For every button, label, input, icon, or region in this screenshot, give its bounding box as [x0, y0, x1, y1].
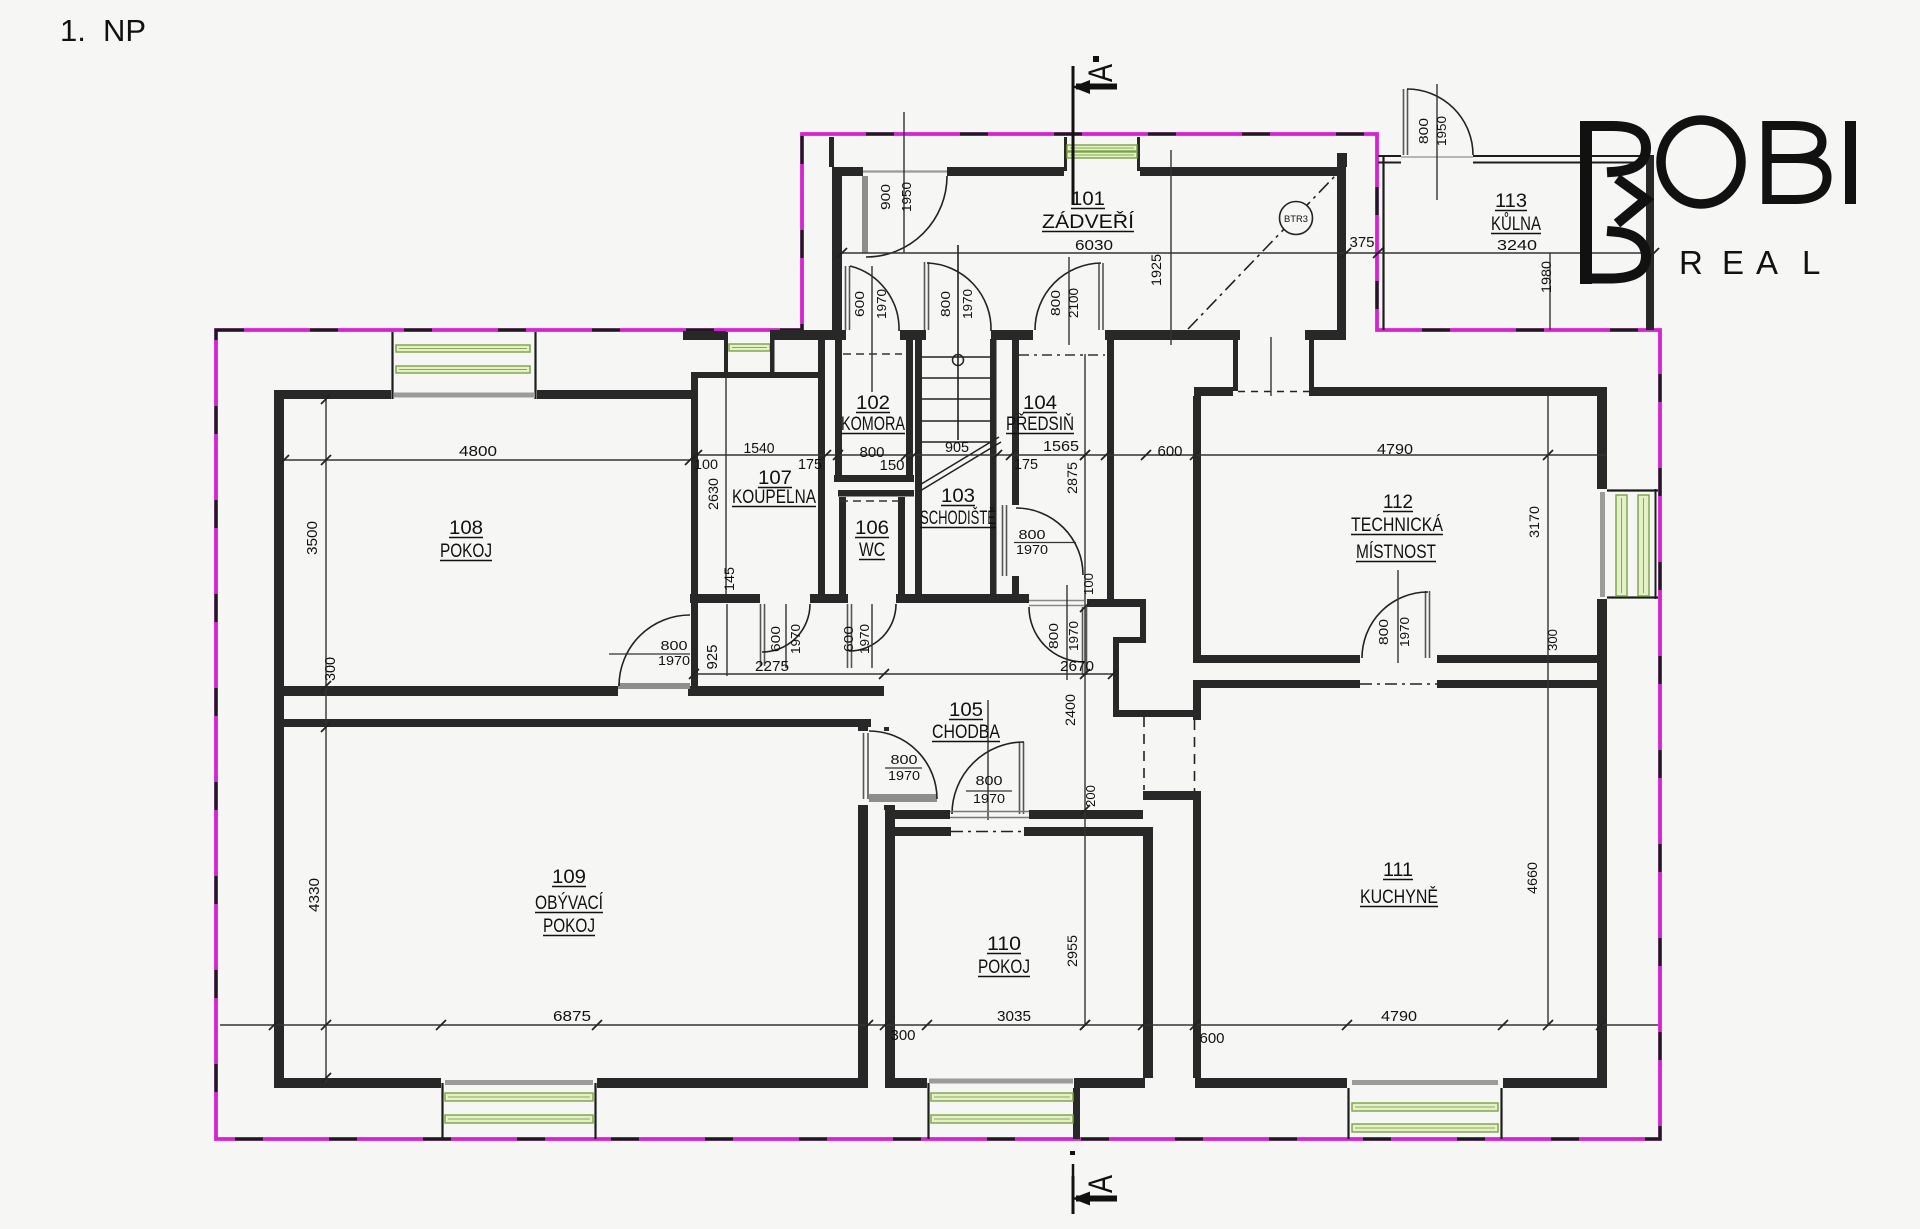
- vertical dim lines left inner: [725, 378, 727, 594]
- wall pokoj110 north e: [1024, 827, 1143, 836]
- svg-text:SCHODIŠTĚ: SCHODIŠTĚ: [920, 507, 996, 529]
- wall jog v1: [1140, 603, 1146, 643]
- wall predsin south e: [1087, 599, 1146, 607]
- vertical dim line x1085: [1084, 354, 1086, 1025]
- svg-text:600: 600: [841, 626, 856, 652]
- wall south-zadveri w4: [991, 330, 1033, 340]
- wall wc north: [838, 490, 914, 497]
- svg-text:KOMORA: KOMORA: [841, 414, 905, 435]
- bay pokoj108 window: [391, 332, 393, 399]
- wall komora south: [834, 475, 914, 482]
- svg-text:1.: 1.: [60, 13, 86, 48]
- wall pokoj110 east: [1143, 827, 1153, 1078]
- svg-text:CHODBA: CHODBA: [932, 722, 1000, 743]
- svg-text:1970: 1970: [1066, 621, 1081, 651]
- wall koupelna east: [818, 339, 825, 594]
- wall zadveri top west: [832, 167, 863, 176]
- dimension line zadveri/kulna y253: [842, 252, 1654, 254]
- svg-text:905: 905: [945, 439, 969, 456]
- svg-text:4330: 4330: [306, 878, 323, 912]
- wall south-zadveri w3: [900, 330, 926, 340]
- svg-text:800: 800: [938, 291, 953, 317]
- svg-text:POKOJ: POKOJ: [440, 541, 492, 562]
- wall stairs west: [915, 339, 922, 594]
- svg-text:108: 108: [449, 518, 483, 539]
- door 112 leaf: [1425, 591, 1427, 658]
- door komora leaf: [845, 266, 847, 330]
- window zadveri bar1: [1067, 145, 1137, 151]
- svg-text:800: 800: [1046, 623, 1061, 649]
- magenta property boundary: [216, 134, 1660, 1139]
- wall obyvaci east upper: [858, 727, 868, 731]
- wall jog kuchyne nw: [1143, 791, 1195, 800]
- svg-text:800: 800: [1019, 527, 1046, 542]
- svg-text:1540: 1540: [744, 440, 775, 457]
- svg-text:2630: 2630: [705, 478, 721, 510]
- staircase treads 103: [922, 356, 990, 358]
- wall chodba south e: [1029, 810, 1143, 819]
- window kuchyne bar2: [1352, 1124, 1498, 1132]
- svg-text:106: 106: [855, 518, 889, 539]
- svg-text:TECHNICKÁ: TECHNICKÁ: [1351, 515, 1443, 536]
- svg-text:109: 109: [552, 867, 586, 888]
- window koupelna post w: [724, 332, 728, 372]
- svg-text:150: 150: [880, 457, 905, 474]
- window 110 bar1: [931, 1093, 1073, 1101]
- wall house east lower: [1597, 599, 1607, 1088]
- svg-text:105: 105: [949, 700, 983, 721]
- wall south-zadveri w6: [1305, 330, 1346, 340]
- wall chodba south w: [885, 810, 950, 819]
- door 110 leaf: [1019, 742, 1021, 814]
- svg-text:3170: 3170: [1526, 506, 1542, 538]
- wall pokoj108 north w: [274, 390, 391, 399]
- staircase cut diagonal: [918, 437, 999, 486]
- svg-text:110: 110: [987, 934, 1021, 955]
- window kuchyne bar1: [1352, 1103, 1498, 1111]
- svg-text:2955: 2955: [1064, 935, 1080, 967]
- svg-text:300: 300: [1545, 629, 1560, 651]
- svg-text:1950: 1950: [1434, 116, 1449, 146]
- wall zadveri east: [1337, 167, 1346, 330]
- svg-text:1925: 1925: [1148, 254, 1164, 286]
- dash predsin top: [1019, 354, 1105, 356]
- wall zadveri west: [832, 167, 842, 330]
- wall south-zadveri w2: [770, 330, 846, 340]
- svg-text:112: 112: [1383, 492, 1413, 513]
- svg-text:L: L: [1802, 244, 1820, 281]
- dimension line bottom y1025: [220, 1024, 1658, 1026]
- dash-dot opening chodba-110: [951, 831, 1024, 833]
- wall house east upper: [1597, 396, 1607, 489]
- svg-text:600: 600: [852, 291, 867, 317]
- svg-text:600: 600: [1200, 1030, 1225, 1047]
- dash-dot opening tech-kuchyne: [1360, 683, 1437, 685]
- dimension line chodba y674: [694, 673, 1113, 675]
- svg-text:800: 800: [976, 773, 1003, 788]
- svg-text:3240: 3240: [1497, 237, 1537, 254]
- svg-text:KŮLNA: KŮLNA: [1491, 213, 1541, 235]
- svg-text:POKOJ: POKOJ: [543, 916, 595, 937]
- svg-text:600: 600: [1158, 443, 1183, 460]
- sill kulna door: [1401, 156, 1473, 158]
- bay 110 east edge: [1073, 1088, 1080, 1139]
- svg-text:1970: 1970: [888, 768, 920, 783]
- svg-text:2275: 2275: [755, 658, 789, 675]
- wall pokoj108 south w: [275, 686, 618, 696]
- svg-text:1980: 1980: [1538, 261, 1554, 293]
- door predsin w leaf: [1002, 505, 1004, 576]
- door 109 obyvaci 800/1970: [869, 794, 937, 802]
- wall corridor stub e: [1309, 337, 1314, 391]
- dimension line 4800 y460: [284, 459, 690, 461]
- svg-text:1970: 1970: [960, 289, 975, 319]
- svg-text:2875: 2875: [1064, 462, 1080, 494]
- wall wc east: [898, 497, 905, 594]
- svg-text:1565: 1565: [1043, 438, 1079, 455]
- svg-text:113: 113: [1495, 191, 1527, 212]
- svg-text:900: 900: [878, 184, 893, 210]
- bay technicka window: [1607, 489, 1658, 491]
- svg-text:100: 100: [694, 457, 718, 472]
- svg-text:4800: 4800: [459, 443, 497, 460]
- svg-text:3500: 3500: [304, 521, 321, 555]
- svg-text:2100: 2100: [1066, 288, 1081, 318]
- wall tech112 south w: [1195, 655, 1360, 663]
- svg-text:R: R: [1679, 244, 1703, 281]
- svg-text:1970: 1970: [1016, 542, 1048, 557]
- svg-text:PŘEDSIŇ: PŘEDSIŇ: [1006, 413, 1074, 435]
- svg-text:104: 104: [1023, 393, 1057, 414]
- svg-text:101: 101: [1071, 189, 1105, 210]
- vertical dim line x1171 zadveri 1925: [1170, 150, 1172, 345]
- svg-text:111: 111: [1383, 860, 1413, 881]
- wall kuchyne west upper: [1193, 680, 1201, 720]
- bay 110 window: [927, 1083, 929, 1139]
- wall chodba north w3: [896, 594, 1029, 603]
- wall south obyvaci e: [597, 1078, 868, 1088]
- wall kulna top west piece: [1378, 155, 1401, 157]
- door koupelna leaf: [760, 604, 762, 666]
- svg-text:4790: 4790: [1377, 441, 1413, 458]
- wall jog a: [1113, 637, 1146, 643]
- logo I: [1845, 121, 1856, 204]
- logo O: [1661, 120, 1741, 204]
- window pokoj108 bar1: [396, 345, 530, 352]
- window zadveri bar2: [1067, 152, 1137, 158]
- window obyvaci bar2: [445, 1115, 593, 1123]
- svg-text:300: 300: [322, 657, 339, 681]
- wall south 110 e: [1074, 1078, 1145, 1088]
- wall chodba north w1: [690, 594, 760, 603]
- wall kulna top east piece: [1473, 155, 1654, 157]
- window zadveri post e: [1137, 137, 1140, 171]
- wall south 110 w: [885, 1078, 927, 1088]
- wall south obyvaci w: [274, 1078, 441, 1088]
- svg-text:145: 145: [722, 567, 737, 591]
- svg-text:800: 800: [1416, 118, 1431, 144]
- svg-text:1970: 1970: [788, 624, 803, 654]
- svg-text:1950: 1950: [899, 182, 914, 212]
- wall kulna west thin: [1382, 155, 1384, 330]
- section mark A bottom: [1070, 1151, 1075, 1155]
- svg-text:1970: 1970: [658, 653, 690, 668]
- wall south-zadveri w5: [1105, 330, 1240, 340]
- wall jog b: [1113, 710, 1195, 717]
- bay kuchyne window: [1347, 1088, 1349, 1139]
- wall wc west: [839, 497, 846, 594]
- wall pokoj110 west: [885, 810, 895, 1078]
- svg-text:103: 103: [941, 486, 975, 507]
- dimension line main y455: [697, 454, 1607, 456]
- dim line corridor door x1271: [1270, 337, 1272, 396]
- bay sills (grey wall faces across window bays): [394, 393, 535, 398]
- wall stairs east: [990, 339, 997, 594]
- svg-text:ZÁDVEŘÍ: ZÁDVEŘÍ: [1042, 211, 1135, 233]
- logo B: [1762, 121, 1772, 204]
- svg-text:800: 800: [1048, 290, 1063, 316]
- wall pokoj108 south e: [688, 686, 884, 696]
- window technicka bar1: [1616, 495, 1627, 596]
- wall kuchyne north w: [1195, 680, 1360, 688]
- svg-text:800: 800: [661, 638, 688, 653]
- svg-text:3035: 3035: [997, 1008, 1031, 1025]
- wall pokoj110 north w: [885, 827, 951, 836]
- svg-text:1970: 1970: [1397, 617, 1412, 647]
- wall tech112 west: [1193, 396, 1201, 663]
- dash-dot diagonal zadveri (attic stair): [1188, 176, 1335, 329]
- wall stub right of zadveri block: [1337, 153, 1347, 167]
- dash passage kuchyne w: [1194, 720, 1196, 791]
- door wc leaf: [847, 604, 849, 668]
- sill zadveri entry door: [863, 170, 947, 172]
- svg-text:2670: 2670: [1060, 658, 1094, 675]
- window zadveri post w: [1064, 137, 1067, 171]
- wall chodba north w2: [810, 594, 848, 603]
- wall zadveri top east: [1140, 167, 1346, 176]
- svg-text:NP: NP: [103, 13, 146, 48]
- wall house west: [274, 390, 284, 1088]
- wall jog v2: [1113, 637, 1119, 716]
- door 108 pokoj 800/1970: [618, 683, 690, 689]
- svg-text:1970: 1970: [857, 624, 872, 654]
- vertical dim line x1548: [1547, 396, 1549, 1025]
- wall zadveri top mid: [947, 167, 1064, 176]
- svg-text:6030: 6030: [1075, 237, 1113, 254]
- wall stub zadveri nw: [829, 137, 834, 167]
- svg-text:KOUPELNA: KOUPELNA: [732, 487, 816, 508]
- wall komora east: [906, 339, 913, 482]
- door predsin-zadveri leaf: [1098, 263, 1100, 330]
- wall kuchyne north e: [1437, 680, 1607, 688]
- wall obyvaci east lower: [858, 805, 868, 1078]
- section mark A top: [1072, 66, 1075, 205]
- svg-text:A: A: [1756, 244, 1778, 281]
- dash passage chodba s: [1143, 717, 1145, 790]
- svg-text:200: 200: [1083, 785, 1098, 807]
- svg-text:E: E: [1722, 244, 1744, 281]
- vertical dim line kulna 1980: [1549, 253, 1551, 330]
- svg-text:OBÝVACÍ: OBÝVACÍ: [535, 893, 604, 914]
- svg-text:375: 375: [1350, 234, 1375, 251]
- svg-text:4660: 4660: [1524, 862, 1540, 894]
- wall kuchyne west lower: [1193, 791, 1201, 1078]
- bay obyvaci window: [441, 1083, 443, 1139]
- door zadveri entry 900/1950: [862, 176, 868, 253]
- wall tech112 south e: [1437, 655, 1607, 663]
- svg-text:2400: 2400: [1062, 694, 1078, 726]
- window koupelna post e: [770, 332, 775, 372]
- svg-text:MÍSTNOST: MÍSTNOST: [1356, 542, 1436, 563]
- wall obyvaci109 north: [275, 719, 871, 727]
- svg-text:300: 300: [891, 1027, 916, 1044]
- svg-text:175: 175: [1014, 456, 1038, 473]
- dashed opening zadveri-tech: [1238, 391, 1309, 393]
- dash wc: [840, 500, 904, 502]
- window koupelna: [729, 344, 770, 351]
- svg-text:A: A: [1082, 64, 1120, 82]
- wall komora west: [835, 339, 842, 482]
- wall pokoj108 north e: [537, 390, 697, 399]
- svg-text:1970: 1970: [874, 289, 889, 319]
- wall predsin east: [1107, 337, 1114, 607]
- wall south kuchyne e: [1503, 1078, 1607, 1088]
- svg-text:BTR3: BTR3: [1284, 214, 1308, 225]
- window pokoj108 bar2: [396, 366, 530, 373]
- svg-text:600: 600: [768, 626, 783, 652]
- wall south-zadveri w1: [683, 331, 726, 340]
- svg-text:102: 102: [856, 393, 890, 414]
- sill chodba-110 opening: [950, 811, 1029, 813]
- wall 110 west sliver upper: [884, 727, 889, 731]
- svg-text:1970: 1970: [973, 791, 1005, 806]
- wall predsin west upper: [1012, 337, 1019, 505]
- svg-text:KUCHYNĚ: KUCHYNĚ: [1360, 886, 1438, 908]
- svg-text:800: 800: [1376, 619, 1391, 645]
- wall tech112 north e: [1309, 387, 1607, 396]
- logo ROBI glyph B/R: [1580, 121, 1592, 284]
- door predsin s leaf: [1082, 607, 1084, 675]
- svg-text:A: A: [1082, 1175, 1120, 1193]
- door stairs leaf: [924, 262, 926, 330]
- svg-text:100: 100: [1081, 573, 1096, 595]
- svg-text:925: 925: [704, 645, 721, 670]
- wall kulna east: [1646, 155, 1654, 330]
- sill predsin s opening: [1029, 600, 1084, 602]
- svg-text:800: 800: [891, 752, 918, 767]
- svg-text:175: 175: [798, 456, 822, 473]
- wall south kuchyne w: [1195, 1078, 1347, 1088]
- svg-text:POKOJ: POKOJ: [978, 957, 1030, 978]
- wall koupelna west: [691, 372, 698, 696]
- svg-text:WC: WC: [859, 540, 885, 561]
- svg-text:6875: 6875: [553, 1008, 591, 1025]
- wall corridor stub w: [1233, 337, 1238, 391]
- svg-text:107: 107: [758, 468, 792, 489]
- dash komora shelf: [843, 353, 902, 355]
- door kulna leaf: [1403, 89, 1405, 155]
- window technicka bar2: [1638, 495, 1649, 596]
- wall 110 west sliver lower: [884, 805, 895, 810]
- wall predsin west lower: [1012, 576, 1019, 602]
- wall koupelna north: [698, 372, 824, 378]
- BTR3 circle: [1280, 202, 1313, 235]
- wall tech112 north w: [1194, 387, 1233, 396]
- svg-text:4790: 4790: [1381, 1008, 1417, 1025]
- window obyvaci bar1: [445, 1093, 593, 1101]
- window 110 bar2: [931, 1115, 1073, 1123]
- stair direction line + circle: [957, 245, 959, 440]
- vertical dim line x326: [325, 399, 327, 1083]
